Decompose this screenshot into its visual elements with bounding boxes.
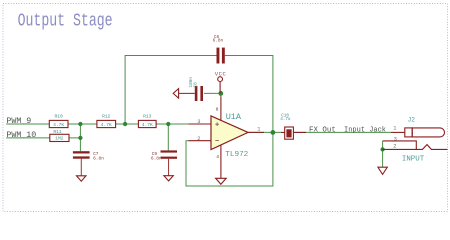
svg-text:6.8n: 6.8n (151, 155, 162, 161)
svg-text:4.7u: 4.7u (280, 117, 291, 122)
svg-text:4.7K: 4.7K (53, 122, 64, 128)
svg-text:1M2: 1M2 (55, 136, 64, 142)
svg-text:2: 2 (393, 144, 396, 150)
svg-text:4: 4 (216, 154, 219, 160)
svg-text:2: 2 (197, 136, 200, 142)
svg-text:R13: R13 (143, 113, 152, 119)
svg-text:1: 1 (393, 126, 396, 132)
svg-text:4.7K: 4.7K (101, 122, 112, 128)
svg-text:R12: R12 (102, 113, 111, 119)
svg-text:1: 1 (257, 126, 260, 132)
svg-text:PWM_9: PWM_9 (6, 117, 31, 126)
svg-text:C8: C8 (194, 82, 199, 88)
svg-text:6.8n: 6.8n (213, 39, 224, 44)
svg-text:VCC: VCC (215, 71, 227, 78)
svg-text:3: 3 (197, 119, 200, 125)
svg-text:4.7K: 4.7K (142, 122, 153, 128)
svg-text:R11: R11 (53, 129, 62, 135)
svg-text:PWM_10: PWM_10 (6, 131, 36, 140)
svg-text:J2: J2 (408, 117, 416, 124)
svg-text:TL972: TL972 (225, 151, 248, 159)
svg-text:Input Jack: Input Jack (344, 127, 386, 135)
svg-text:6.8n: 6.8n (93, 155, 104, 161)
svg-text:R10: R10 (55, 113, 64, 119)
svg-text:8: 8 (216, 106, 219, 112)
svg-text:FX Out: FX Out (309, 127, 336, 135)
svg-text:Output Stage: Output Stage (18, 10, 113, 31)
svg-text:INPUT: INPUT (402, 156, 425, 164)
svg-text:U1A: U1A (226, 112, 242, 122)
svg-text:3: 3 (394, 136, 397, 142)
